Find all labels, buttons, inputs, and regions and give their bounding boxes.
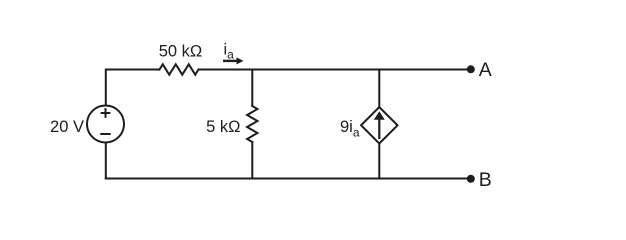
terminal dot node A	[467, 65, 475, 73]
wire top-left segment (node top-left corner to resistor R1)	[106, 70, 160, 106]
resistor R2 5 kOhm (vertical zigzag)	[247, 106, 257, 142]
wire dependent-source branch upper	[378, 70, 380, 108]
svg-text:A: A	[479, 59, 492, 81]
svg-text:20 V: 20 V	[50, 118, 84, 136]
dependent current source U1 diamond outline	[361, 107, 397, 143]
resistor R1 50 kOhm (horizontal zigzag)	[160, 64, 199, 74]
terminal dot node B	[467, 175, 475, 183]
minus sign of V1	[101, 133, 109, 135]
svg-text:50 kΩ: 50 kΩ	[159, 43, 203, 61]
wire top-right segment (resistor to terminal A)	[199, 69, 471, 71]
wire middle branch upper (top node to resistor R2)	[251, 70, 253, 107]
wire bottom node	[106, 178, 471, 180]
svg-text:B: B	[479, 169, 492, 191]
svg-text:ia: ia	[224, 42, 235, 62]
wire left branch lower (source V1 to bottom node)	[105, 143, 107, 179]
wire middle branch lower (resistor R2 to bottom node)	[251, 142, 253, 179]
svg-text:5 kΩ: 5 kΩ	[206, 118, 240, 136]
voltage source V1 circle	[87, 106, 124, 143]
plus sign of V1	[102, 109, 110, 117]
svg-text:9ia: 9ia	[340, 118, 360, 140]
current arrow inside dependent source U1	[374, 111, 385, 139]
wire dependent-source branch lower	[378, 144, 380, 179]
current direction arrow for i_a	[223, 57, 244, 64]
